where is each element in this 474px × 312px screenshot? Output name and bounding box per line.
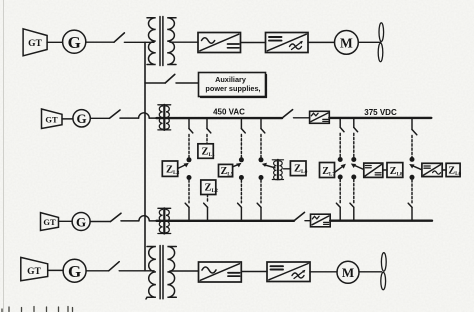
svg-text:M: M <box>342 265 354 280</box>
svg-text:GT: GT <box>27 267 41 277</box>
svg-text:GT: GT <box>45 115 58 125</box>
svg-text:G: G <box>76 214 86 229</box>
svg-text:Auxiliary: Auxiliary <box>215 75 247 84</box>
svg-text:power supplies,: power supplies, <box>205 84 260 93</box>
svg-text:G: G <box>77 111 87 126</box>
svg-text:375 VDC: 375 VDC <box>364 108 397 117</box>
svg-text:450 VAC: 450 VAC <box>213 108 245 117</box>
svg-text:G: G <box>68 262 81 281</box>
svg-text:G: G <box>68 33 81 52</box>
svg-text:GT: GT <box>28 39 42 49</box>
svg-text:M: M <box>340 35 353 50</box>
svg-text:GT: GT <box>43 217 56 227</box>
